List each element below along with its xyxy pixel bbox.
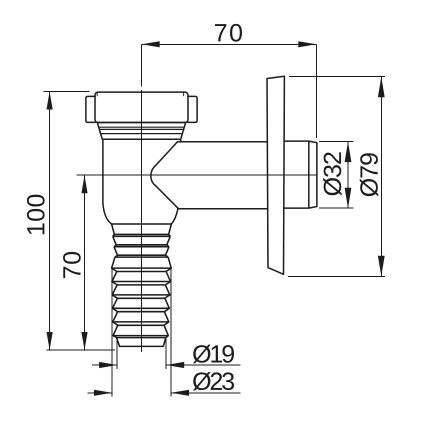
arrow dia79 down: [378, 256, 385, 276]
barb 6 step: [113, 336, 168, 338]
barb 4 step: [113, 308, 170, 311]
barb 6: [113, 325, 168, 335]
extension line flange bottom: [288, 275, 385, 277]
hose cone ring line 2: [114, 233, 168, 235]
arrow 70 top right: [298, 41, 316, 47]
hose cone ring line 1: [112, 223, 172, 225]
nut skirt line 1: [99, 126, 185, 128]
dimension line dia79: [380, 77, 382, 277]
arrow 100 down: [47, 332, 53, 350]
arrow 70 inner up: [81, 175, 87, 193]
arrow dia32 down: [345, 188, 352, 209]
extension line pipe bottom: [47, 349, 115, 351]
barb 3: [112, 285, 170, 295]
hose cone ledge 3: [114, 245, 169, 247]
centerline vertical axis upper: [141, 44, 143, 86]
centerline horizontal axis: [77, 174, 317, 176]
extension line stub bottom: [319, 207, 353, 209]
dimension line 100: [49, 92, 51, 351]
wall flange: [267, 76, 284, 274]
outlet stub top: [284, 141, 317, 208]
extension line dia19 right: [165, 337, 167, 369]
label 70 inner: [63, 252, 81, 278]
arrow dia79 up: [378, 77, 385, 98]
arrow dia19 right: [166, 362, 184, 368]
extension line stub top: [319, 141, 353, 143]
barb 1 step: [112, 268, 172, 271]
nut body: [95, 92, 188, 122]
dimension line dia32: [347, 142, 349, 209]
barb 1: [112, 257, 172, 268]
nut corner tick left: [96, 93, 98, 97]
dimension line dia23 right: [171, 392, 241, 394]
barb 5 step: [113, 322, 169, 325]
taper curve right: [171, 209, 177, 224]
branch bottom edge: [179, 208, 267, 210]
label dia23: [193, 372, 234, 391]
hose cone ring line 4: [118, 254, 166, 256]
nut skirt: [97, 123, 185, 140]
arrow dia19 left: [99, 362, 117, 368]
arrow 70 inner down: [81, 332, 87, 350]
hose cone band 2 sides: [113, 236, 171, 245]
hose cone band 3 sides: [114, 247, 169, 256]
dimension line dia23 left: [88, 392, 113, 394]
hose cone ring line 3: [116, 244, 167, 246]
hose cone band 1 sides: [112, 224, 172, 234]
branch cone upper edge: [151, 142, 178, 186]
branch cone lower edge: [156, 186, 179, 209]
branch top edge: [178, 141, 268, 143]
hose cone ledge 2: [113, 234, 171, 236]
arrow 70 top left: [142, 41, 160, 47]
dimension line dia19 right: [166, 364, 240, 366]
barb 2: [112, 272, 171, 282]
hose cone ledge 4: [115, 255, 168, 257]
extension line flange top: [289, 76, 385, 78]
arrow dia32 up: [345, 142, 352, 163]
vertical pipe right edge stub: [180, 139, 182, 141]
outlet stub chamfer line: [308, 141, 310, 208]
label 100: [27, 195, 45, 235]
nut skirt line 2: [99, 128, 183, 130]
centerline vertical axis lower: [141, 90, 143, 352]
dimension line dia19 left: [92, 364, 117, 366]
barb 3 step: [112, 295, 170, 298]
label dia32: [323, 152, 342, 195]
extension line dia19 left: [116, 337, 118, 369]
extension line stub end: [315, 44, 317, 138]
barb 5: [113, 312, 169, 322]
nut right ear: [188, 96, 197, 122]
label dia19: [193, 345, 234, 364]
extension line dia23 left: [111, 268, 113, 396]
dimension line 70 inner: [84, 175, 86, 350]
arrow dia23 right: [171, 390, 189, 396]
nut left ear: [86, 96, 95, 122]
extension line nut top: [44, 91, 90, 93]
end spigot: [117, 338, 166, 347]
barb 2 step: [112, 282, 171, 285]
vertical pipe left edge: [103, 139, 112, 224]
arrow dia23 left: [94, 390, 112, 396]
nut skirt line 3: [101, 133, 183, 135]
dimension line 70 top: [142, 43, 317, 45]
label 70 top: [215, 24, 242, 42]
extension line dia23 right: [170, 268, 172, 396]
nut corner tick right: [183, 93, 185, 97]
label dia79: [360, 153, 379, 196]
arrow 100 up: [47, 92, 53, 110]
barb 4: [113, 298, 170, 308]
